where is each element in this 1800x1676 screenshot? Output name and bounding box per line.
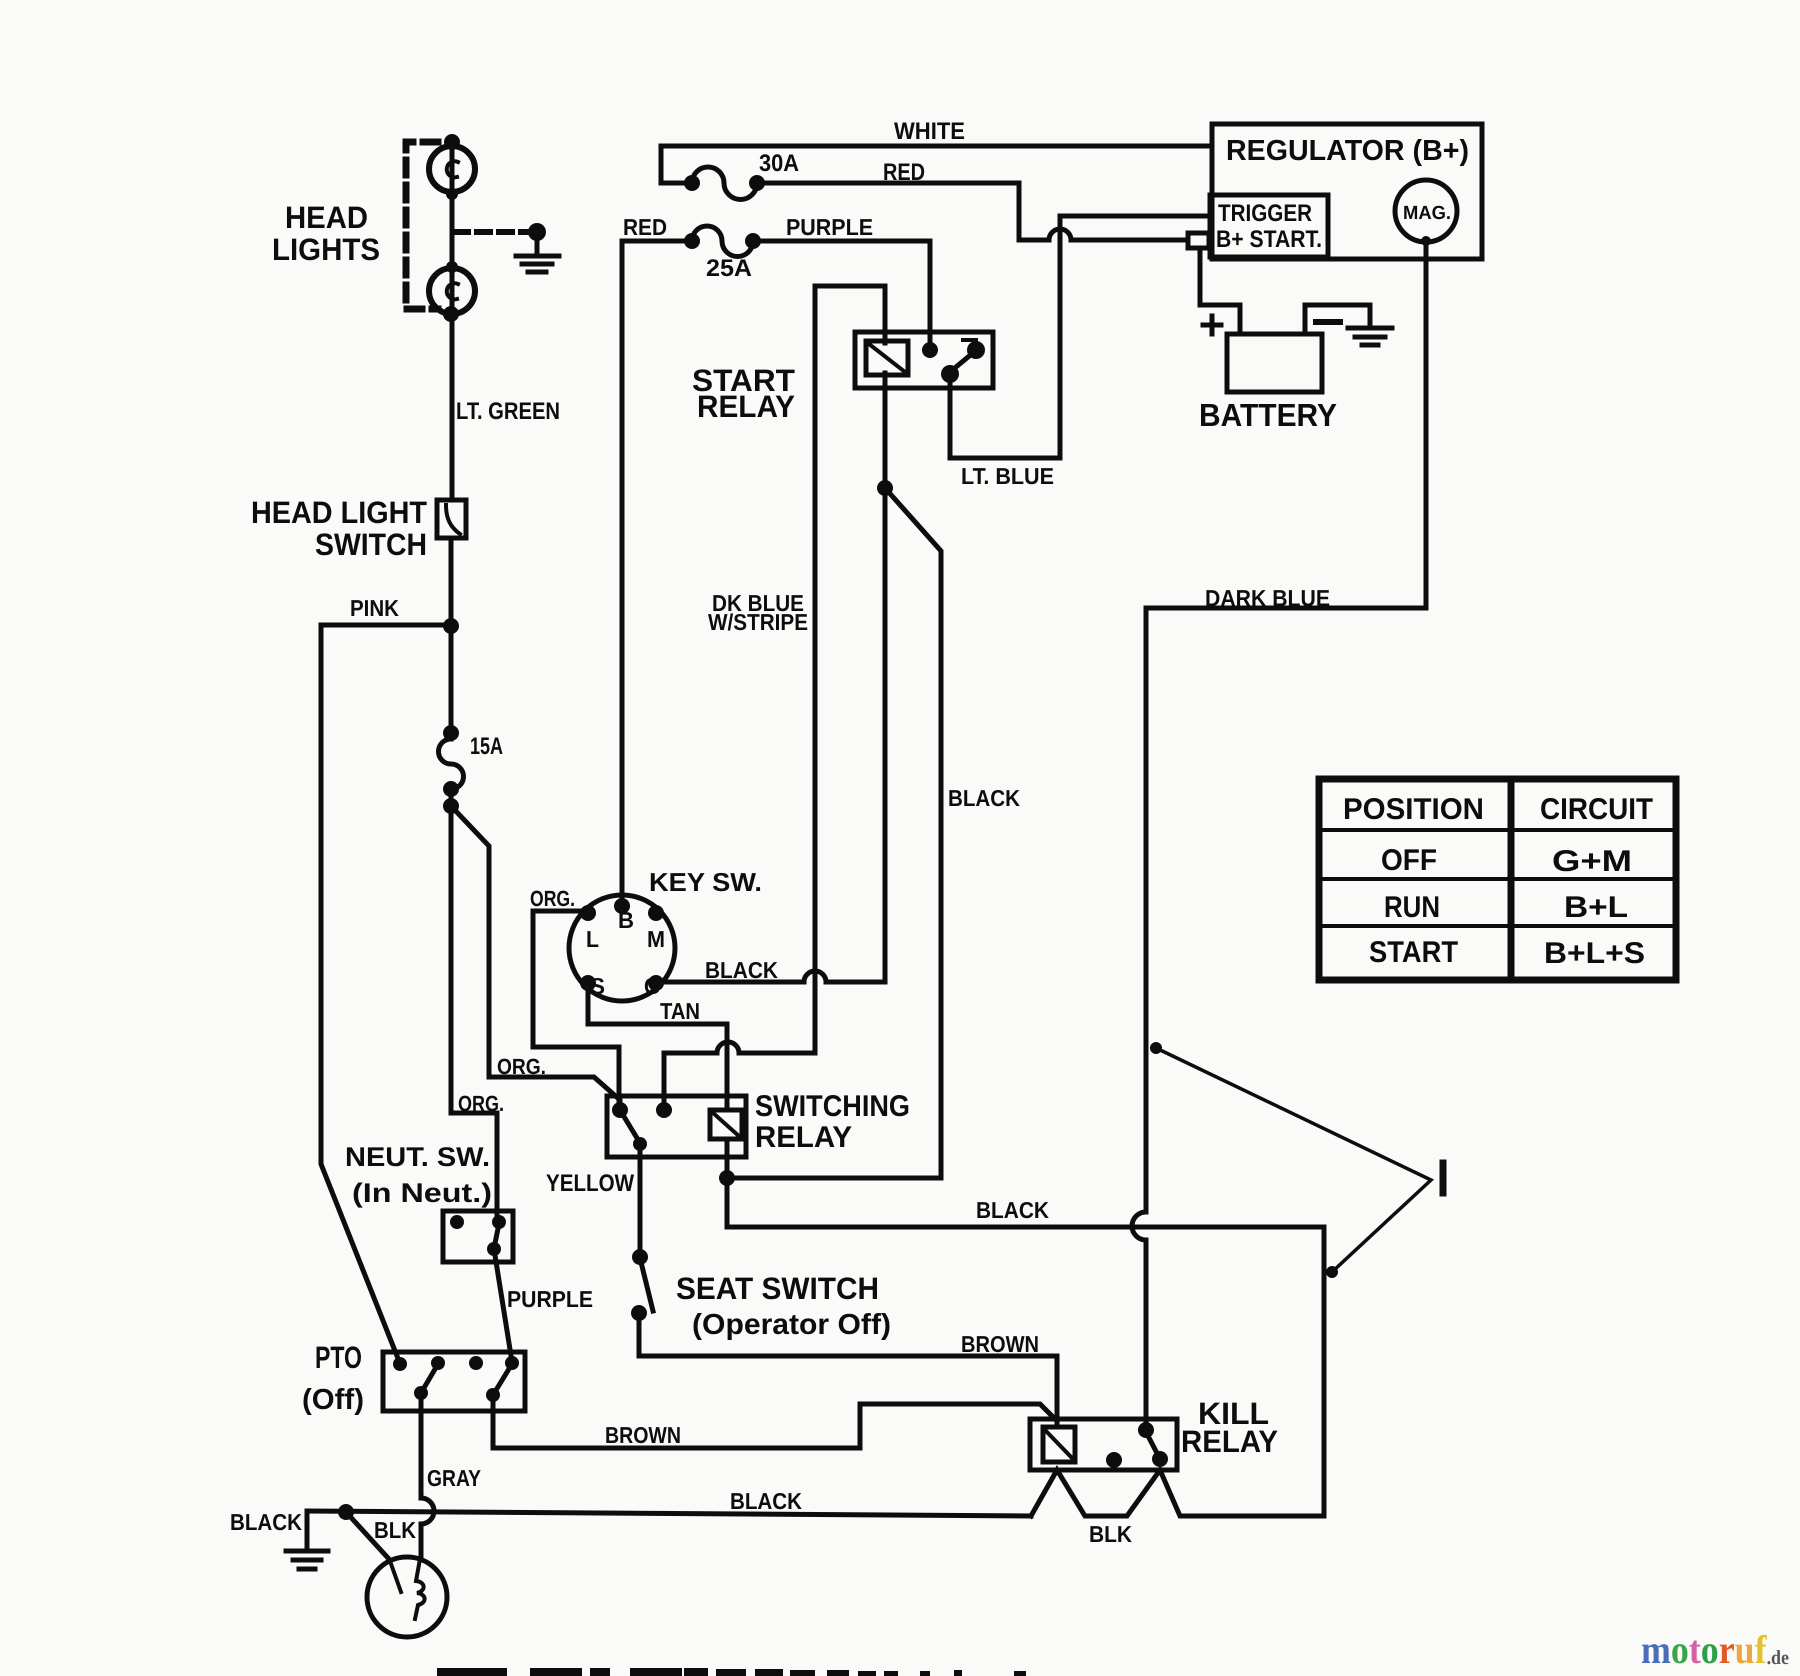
neutral switch S1 box — [443, 1211, 513, 1262]
svg-text:15A: 15A — [470, 733, 503, 760]
svg-text:SWITCHING: SWITCHING — [755, 1090, 910, 1123]
svg-text:BLACK: BLACK — [230, 1509, 302, 1535]
svg-text:B: B — [618, 907, 634, 933]
wire BROWN seat to kill coil — [639, 1313, 1057, 1427]
svg-text:TRIGGER: TRIGGER — [1218, 200, 1312, 227]
svg-text:ORG.: ORG. — [530, 886, 575, 911]
fuse 30A — [692, 167, 757, 200]
svg-text:LT. GREEN: LT. GREEN — [456, 398, 560, 425]
ground bottom left — [305, 1511, 310, 1549]
svg-text:RELAY: RELAY — [697, 389, 795, 424]
battery B1 — [1227, 334, 1322, 392]
svg-text:WHITE: WHITE — [894, 118, 965, 145]
node top of lamps — [444, 134, 460, 150]
svg-text:SWITCH: SWITCH — [315, 527, 427, 562]
seat switch S2 — [632, 1249, 648, 1265]
partial title bottom — [437, 1668, 1026, 1676]
svg-text:W/STRIPE: W/STRIPE — [708, 609, 808, 635]
switching relay K2 box — [607, 1096, 746, 1157]
trigger tab — [1188, 233, 1209, 248]
svg-text:PTO: PTO — [315, 1340, 362, 1375]
wire TAN — [588, 983, 727, 1110]
svg-text:RELAY: RELAY — [1181, 1424, 1278, 1459]
svg-text:PURPLE: PURPLE — [507, 1286, 593, 1312]
fuse 15A — [438, 739, 463, 789]
wire RED to trigger tab — [757, 183, 1188, 240]
svg-text:DARK BLUE: DARK BLUE — [1205, 585, 1330, 611]
wire DK BLUE W/STRIPE — [664, 286, 885, 1110]
node below lamps — [443, 306, 459, 322]
wire switch to pink node — [449, 538, 454, 734]
svg-text:G: G — [644, 973, 660, 999]
svg-text:NEUT. SW.: NEUT. SW. — [345, 1142, 490, 1172]
switching relay terminals — [612, 1102, 628, 1118]
wire ORG from key L — [533, 911, 619, 1110]
svg-text:START: START — [1369, 936, 1458, 969]
svg-text:POSITION: POSITION — [1343, 793, 1484, 826]
plus sign — [1203, 316, 1221, 334]
svg-text:BLACK: BLACK — [705, 957, 778, 983]
fuse 25A — [692, 226, 753, 256]
svg-text:YELLOW: YELLOW — [546, 1170, 634, 1197]
svg-text:ORG.: ORG. — [497, 1054, 546, 1079]
svg-text:(In Neut.): (In Neut.) — [352, 1178, 492, 1208]
headlight lamp L2 — [429, 268, 475, 314]
dashed wire to ground — [455, 229, 528, 235]
pointer I mark — [1440, 1163, 1447, 1193]
node between lamps lower — [446, 261, 458, 273]
svg-text:OFF: OFF — [1381, 844, 1437, 877]
svg-text:S: S — [590, 973, 605, 999]
node below fuse — [443, 798, 459, 814]
wire BLK to lamp — [346, 1512, 388, 1558]
svg-text:PURPLE: PURPLE — [786, 214, 873, 240]
start relay terminals — [922, 342, 938, 358]
svg-text:RED: RED — [623, 214, 667, 240]
start relay arm — [950, 352, 974, 372]
svg-text:BLACK: BLACK — [730, 1488, 802, 1514]
wire WHITE and RED to regulator — [661, 146, 1212, 183]
key switch KS1 — [569, 895, 675, 1001]
wire GRAY to lamp — [421, 1395, 434, 1556]
kill relay coil — [1043, 1427, 1075, 1462]
svg-text:RELAY: RELAY — [755, 1121, 852, 1154]
svg-text:G+M: G+M — [1552, 845, 1632, 878]
wire key B to 25A fuse — [622, 241, 692, 905]
svg-text:(Operator Off): (Operator Off) — [692, 1309, 891, 1341]
svg-text:KEY SW.: KEY SW. — [649, 867, 762, 897]
svg-text:BROWN: BROWN — [961, 1331, 1039, 1357]
ground battery — [1348, 326, 1392, 331]
kill relay arm — [1146, 1432, 1159, 1457]
switching relay arm — [620, 1110, 640, 1143]
lamp (engine) — [367, 1557, 447, 1637]
headlight lamp L1 — [429, 146, 475, 192]
svg-text:RED: RED — [883, 159, 925, 186]
MAG circle — [1395, 180, 1457, 242]
svg-text:TAN: TAN — [660, 998, 700, 1024]
node lamp tap — [338, 1504, 354, 1520]
svg-text:GRAY: GRAY — [427, 1465, 481, 1491]
svg-text:LIGHTS: LIGHTS — [272, 232, 380, 267]
wire battery minus — [1305, 305, 1370, 334]
pointer callout — [1156, 1048, 1431, 1272]
wire ORG to neutral switch — [451, 791, 497, 1214]
wire PINK — [321, 625, 447, 1361]
svg-text:CIRCUIT: CIRCUIT — [1540, 793, 1653, 826]
node between lamps upper — [446, 188, 458, 200]
svg-text:BLACK: BLACK — [948, 785, 1020, 811]
PTO switch box — [383, 1352, 525, 1411]
wire switching coil to kill circuit — [727, 1139, 1324, 1516]
headlight switch SW1 — [437, 500, 466, 538]
regulator box — [1212, 124, 1482, 259]
svg-text:MAG.: MAG. — [1403, 203, 1451, 224]
svg-text:HEAD: HEAD — [285, 200, 368, 235]
svg-text:ORG.: ORG. — [458, 1091, 504, 1116]
wire battery plus — [1200, 248, 1240, 334]
start relay coil — [866, 341, 908, 375]
wire BROWN PTO to kill relay — [493, 1395, 1057, 1448]
wire PURPLE to start relay — [753, 241, 930, 348]
table POSITION/CIRCUIT — [1319, 779, 1676, 980]
svg-text:PINK: PINK — [350, 595, 399, 621]
kill relay bottom legs BLK — [1031, 1470, 1160, 1516]
node start relay junction — [877, 480, 893, 496]
head lights dashed housing — [406, 142, 438, 309]
start relay K1 box — [855, 332, 993, 388]
wire start coil to black junction — [665, 373, 885, 982]
svg-text:M: M — [647, 926, 665, 952]
svg-text:SEAT SWITCH: SEAT SWITCH — [676, 1271, 879, 1306]
svg-text:BLK: BLK — [374, 1517, 416, 1543]
minus sign — [1316, 319, 1340, 325]
svg-text:BROWN: BROWN — [605, 1422, 681, 1448]
ground headlights — [535, 232, 540, 253]
svg-text:BLACK: BLACK — [976, 1197, 1049, 1223]
svg-text:B+L: B+L — [1564, 891, 1628, 924]
svg-text:REGULATOR (B+): REGULATOR (B+) — [1226, 135, 1469, 167]
svg-text:L: L — [586, 926, 599, 952]
wire PURPLE neutral to PTO — [494, 1249, 512, 1362]
node ground tap — [528, 223, 546, 241]
PTO arms — [421, 1364, 438, 1393]
watermark motoruf.de — [1641, 1627, 1789, 1672]
svg-text:B+ START.: B+ START. — [1216, 226, 1322, 253]
svg-text:25A: 25A — [706, 255, 752, 282]
svg-text:BLK: BLK — [1089, 1521, 1132, 1547]
wire BLACK bottom run — [307, 1511, 1031, 1516]
svg-text:30A: 30A — [759, 150, 799, 177]
wire headlights vertical — [450, 141, 455, 498]
wire LT BLUE — [950, 216, 1210, 458]
svg-text:B+L+S: B+L+S — [1544, 937, 1645, 970]
kill relay terminals — [1138, 1422, 1154, 1438]
trigger box — [1210, 195, 1328, 257]
node coil bottom junction — [719, 1170, 735, 1186]
svg-text:RUN: RUN — [1384, 891, 1440, 924]
svg-text:BATTERY: BATTERY — [1199, 397, 1337, 433]
wire YELLOW to seat switch — [638, 1144, 643, 1257]
wire DARK BLUE — [1132, 242, 1426, 1430]
svg-text:LT. BLUE: LT. BLUE — [961, 463, 1054, 489]
wire BLACK down to switching relay coil — [727, 488, 941, 1178]
switching relay coil — [710, 1110, 742, 1139]
wire ORG to switching relay — [451, 806, 620, 1110]
kill relay K3 box — [1030, 1419, 1177, 1470]
svg-text:(Off): (Off) — [302, 1384, 364, 1416]
svg-text:HEAD LIGHT: HEAD LIGHT — [251, 495, 427, 530]
node pink junction — [443, 618, 459, 634]
